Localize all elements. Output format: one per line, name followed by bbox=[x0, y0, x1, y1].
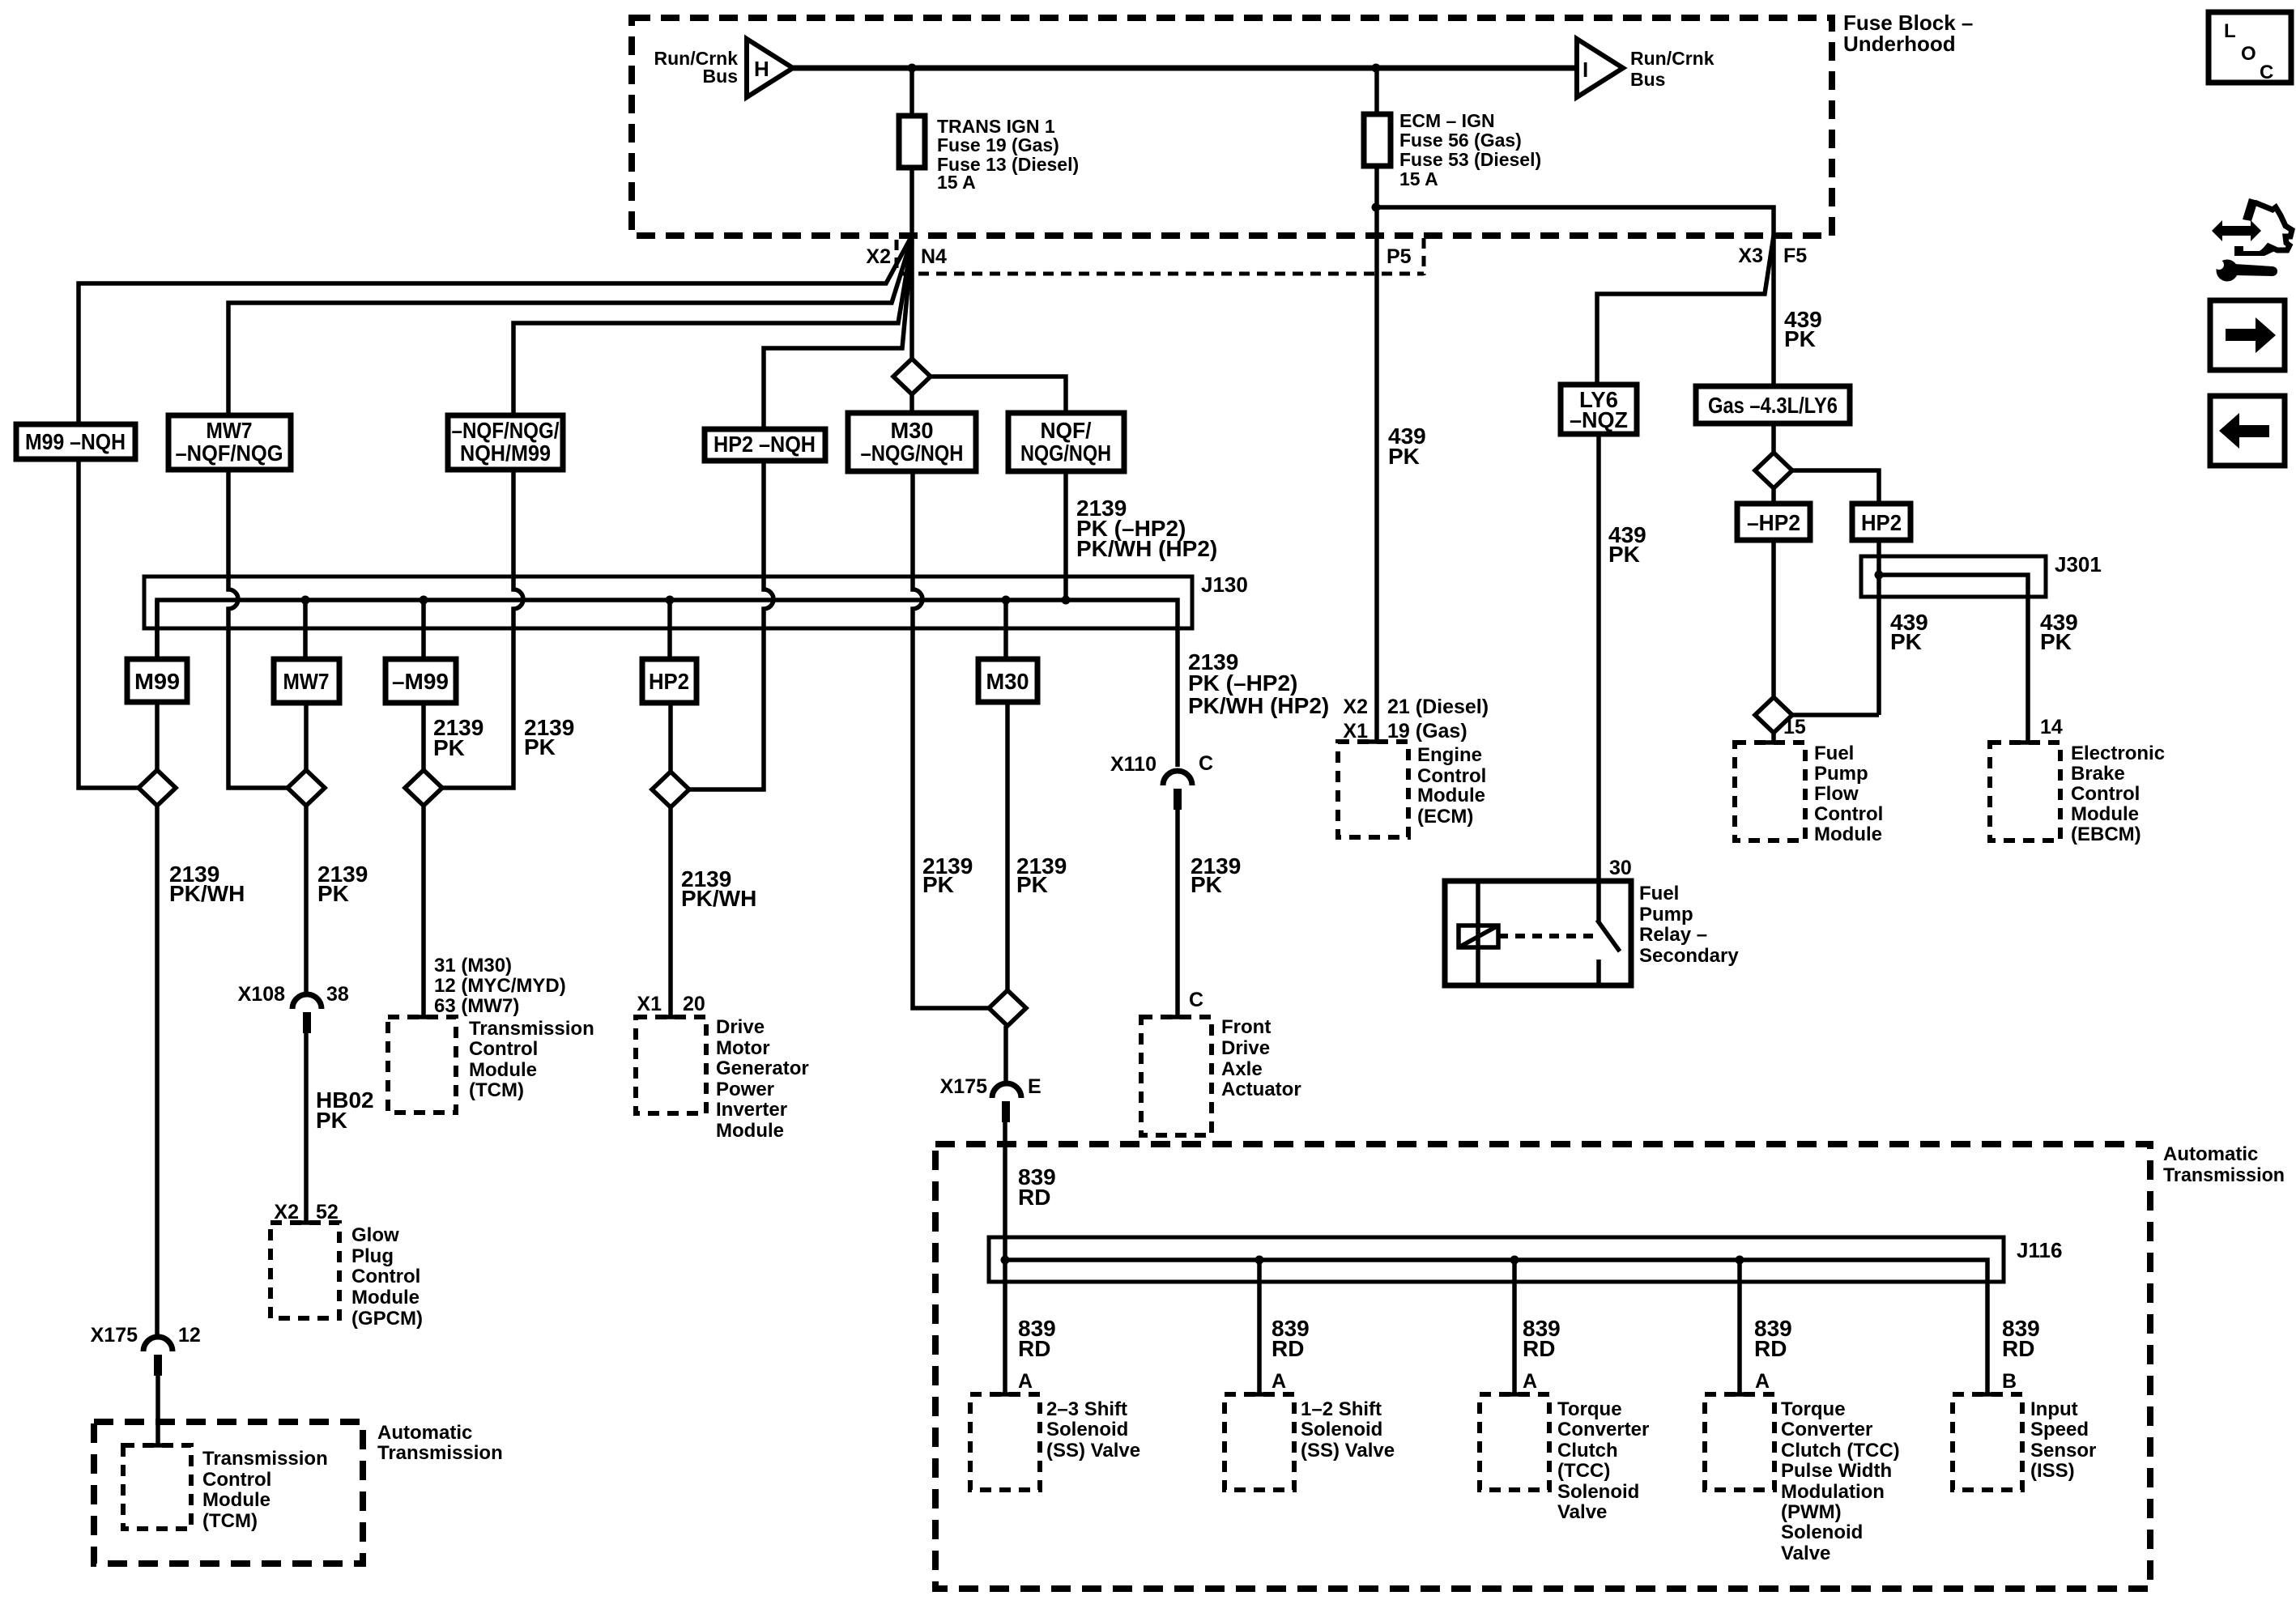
relay Fuel Pump Relay - Secondary bbox=[1445, 881, 1631, 985]
svg-text:PK/WH (HP2): PK/WH (HP2) bbox=[1188, 693, 1329, 718]
wire J130 tap to -M99 box bbox=[421, 600, 426, 659]
wire diamond to HP2 box bbox=[1792, 470, 1879, 504]
module ECM dashed box bbox=[1338, 742, 1408, 837]
svg-text:MW7: MW7 bbox=[207, 418, 253, 443]
svg-text:N4: N4 bbox=[921, 245, 947, 268]
wire fan to M99-NQH bbox=[79, 236, 912, 424]
svg-text:PK: PK bbox=[1784, 326, 1816, 351]
svg-text:–HP2: –HP2 bbox=[1747, 510, 1800, 535]
svg-text:Glow: Glow bbox=[351, 1224, 399, 1246]
svg-text:(EBCM): (EBCM) bbox=[2071, 823, 2141, 845]
box HP2 -NQH bbox=[705, 429, 825, 461]
svg-text:Actuator: Actuator bbox=[1221, 1079, 1301, 1100]
svg-text:12 (MYC/MYD): 12 (MYC/MYD) bbox=[434, 975, 566, 997]
svg-text:L: L bbox=[2224, 20, 2236, 42]
svg-text:Input: Input bbox=[2030, 1398, 2078, 1420]
svg-text:Module: Module bbox=[1814, 823, 1882, 845]
svg-text:RD: RD bbox=[1018, 1185, 1050, 1210]
svg-text:Converter: Converter bbox=[1557, 1419, 1649, 1440]
wire HB02 to GPCM bbox=[304, 1033, 309, 1223]
relay coil bbox=[1459, 926, 1498, 947]
automatic transmission dashed box lower-left bbox=[94, 1422, 363, 1564]
svg-text:31 (M30): 31 (M30) bbox=[434, 955, 512, 977]
wire X175 to TCM bbox=[155, 1376, 160, 1445]
svg-text:Gas –4.3L/LY6: Gas –4.3L/LY6 bbox=[1708, 393, 1838, 418]
svg-text:Electronic: Electronic bbox=[2071, 743, 2165, 764]
svg-text:E: E bbox=[1028, 1075, 1042, 1098]
box HP2 right bbox=[1852, 504, 1910, 540]
svg-text:PK (–HP2): PK (–HP2) bbox=[1188, 670, 1297, 696]
wire X3 branch to LY6-NQZ bbox=[1597, 236, 1774, 385]
wire J116 inner bus bbox=[1005, 1260, 1987, 1394]
node I off-page triangle bbox=[1577, 39, 1623, 97]
wire fan to -NQF/NQG/NQH/M99 bbox=[513, 240, 912, 415]
wire fan to MW7-NQF/NQG bbox=[228, 238, 912, 415]
svg-text:Transmission: Transmission bbox=[377, 1442, 503, 1464]
junction dot bus at TRANS IGN fuse bbox=[908, 64, 917, 73]
svg-text:Front: Front bbox=[1221, 1016, 1271, 1038]
icon arrow left box bbox=[2210, 396, 2285, 466]
wire X175/E to J116 bbox=[1003, 1122, 1007, 1260]
wire Gas box to diamond bbox=[1771, 423, 1776, 453]
svg-text:Fuse 56 (Gas): Fuse 56 (Gas) bbox=[1399, 130, 1522, 151]
wire bus to TRANS IGN 1 fuse bbox=[909, 68, 914, 116]
module Front Drive Axle Actuator dashed box bbox=[1141, 1017, 1212, 1135]
svg-text:I: I bbox=[1582, 57, 1588, 82]
svg-text:M30: M30 bbox=[891, 418, 934, 443]
svg-text:63 (MW7): 63 (MW7) bbox=[434, 995, 519, 1017]
node H off-page triangle bbox=[747, 39, 793, 97]
svg-text:J301: J301 bbox=[2055, 552, 2102, 577]
svg-text:Power: Power bbox=[716, 1079, 774, 1100]
svg-text:X108: X108 bbox=[238, 983, 285, 1006]
box MW7 -NQF/NQG bbox=[168, 415, 291, 470]
box M99 bbox=[127, 659, 187, 702]
wire Run/Crnk bus bbox=[793, 66, 1576, 71]
svg-text:Solenoid: Solenoid bbox=[1301, 1419, 1382, 1440]
wire HP2 diamond to X1/20 bbox=[668, 807, 673, 1017]
wire LY6-NQZ to relay pin 30 bbox=[1596, 434, 1601, 883]
svg-text:Clutch: Clutch bbox=[1557, 1440, 1618, 1462]
svg-text:14: 14 bbox=[2040, 716, 2063, 738]
svg-text:(PWM): (PWM) bbox=[1781, 1501, 1842, 1523]
wire bus to ECM-IGN fuse bbox=[1374, 68, 1379, 114]
svg-text:PK: PK bbox=[316, 1108, 347, 1133]
connector X175 pin 12 bbox=[143, 1337, 173, 1351]
svg-text:Motor: Motor bbox=[716, 1037, 770, 1059]
svg-text:PK: PK bbox=[1608, 542, 1640, 567]
box -NQF/NQG/NQH/M99 bbox=[448, 415, 563, 470]
svg-text:X3: X3 bbox=[1738, 245, 1763, 267]
svg-text:Control: Control bbox=[469, 1038, 538, 1060]
svg-text:O: O bbox=[2241, 43, 2256, 65]
wire MW7 box to diamond bbox=[304, 703, 309, 770]
svg-text:15 A: 15 A bbox=[937, 172, 976, 193]
svg-text:RD: RD bbox=[1272, 1336, 1304, 1361]
svg-text:(TCM): (TCM) bbox=[202, 1510, 258, 1532]
svg-text:Control: Control bbox=[1814, 803, 1883, 825]
svg-text:Fuel: Fuel bbox=[1639, 883, 1679, 904]
svg-text:–NQF/NQG: –NQF/NQG bbox=[176, 440, 283, 466]
svg-text:(ISS): (ISS) bbox=[2030, 1460, 2075, 1482]
wire J130 inner bus bbox=[157, 600, 1178, 767]
svg-text:15 A: 15 A bbox=[1399, 168, 1438, 189]
svg-text:19 (Gas): 19 (Gas) bbox=[1387, 720, 1467, 743]
diamond splice HP2 bbox=[652, 772, 689, 807]
svg-text:Automatic: Automatic bbox=[2163, 1143, 2258, 1165]
wire TRANS IGN 1 fuse down to X2/N4 bbox=[909, 168, 914, 359]
svg-text:RD: RD bbox=[2002, 1336, 2034, 1361]
icon arrow right box bbox=[2210, 300, 2285, 370]
box M30 -NQG/NQH bbox=[848, 413, 976, 471]
junction dot J116 1-2 shift tap bbox=[1255, 1256, 1264, 1265]
svg-text:PK/WH (HP2): PK/WH (HP2) bbox=[1076, 536, 1217, 561]
svg-text:Flow: Flow bbox=[1814, 783, 1859, 805]
module GPCM dashed box bbox=[270, 1223, 339, 1318]
junction dot J116 TCC tap bbox=[1510, 1256, 1519, 1265]
connector mark X2/N4 bbox=[895, 240, 899, 269]
wire J130 tap to HP2 box bbox=[667, 600, 672, 659]
connector row fine dashed line below fuse block bbox=[901, 272, 1424, 276]
svg-text:Fuse 19 (Gas): Fuse 19 (Gas) bbox=[937, 134, 1059, 155]
box -M99 bbox=[386, 659, 456, 703]
wire -M99 box to diamond bbox=[421, 703, 426, 770]
svg-text:Underhood: Underhood bbox=[1843, 32, 1956, 56]
svg-text:(SS) Valve: (SS) Valve bbox=[1046, 1440, 1140, 1462]
svg-text:C: C bbox=[2260, 62, 2273, 83]
svg-text:Sensor: Sensor bbox=[2030, 1440, 2096, 1462]
svg-text:PK: PK bbox=[524, 734, 556, 760]
svg-text:RD: RD bbox=[1523, 1336, 1555, 1361]
svg-text:MW7: MW7 bbox=[283, 669, 330, 694]
junction dot J130 MW7 tap bbox=[301, 596, 310, 605]
wire J130 tap to MW7 box bbox=[303, 600, 308, 659]
splice pack J301 outer bbox=[1861, 556, 2046, 597]
svg-text:X1: X1 bbox=[1343, 720, 1368, 743]
svg-text:PK: PK bbox=[1016, 872, 1048, 897]
wire -HP2 box to diamond bbox=[1771, 540, 1776, 697]
relay dashed actuation line bbox=[1498, 934, 1593, 938]
svg-text:(TCC): (TCC) bbox=[1557, 1460, 1610, 1482]
wire fan to HP2-NQH bbox=[764, 243, 912, 429]
wire branch to X3/F5 bbox=[1376, 207, 1774, 386]
svg-text:X1: X1 bbox=[637, 993, 662, 1015]
svg-text:Control: Control bbox=[1417, 765, 1486, 787]
svg-text:(ECM): (ECM) bbox=[1417, 806, 1473, 828]
junction dot J116 TCC PWM tap bbox=[1736, 1256, 1744, 1265]
svg-text:Bus: Bus bbox=[1630, 69, 1665, 90]
svg-text:HP2: HP2 bbox=[1861, 510, 1902, 535]
svg-text:PK: PK bbox=[922, 872, 954, 897]
svg-text:Valve: Valve bbox=[1781, 1543, 1830, 1564]
box -HP2 bbox=[1737, 504, 1810, 540]
wire -M99 diamond to TCM bbox=[421, 806, 426, 1017]
svg-text:20: 20 bbox=[683, 993, 705, 1015]
svg-text:PK: PK bbox=[1191, 872, 1222, 897]
junction dot J130 feed tap bbox=[1062, 596, 1071, 605]
wire J116 to TCC PWM solenoid bbox=[1737, 1260, 1742, 1394]
relay switch bbox=[1596, 881, 1601, 921]
fuse block underhood dashed box bbox=[632, 18, 1832, 236]
svg-text:PK: PK bbox=[1890, 629, 1922, 654]
svg-text:Module: Module bbox=[1417, 785, 1485, 806]
wire HP2 box into J301 bbox=[1876, 540, 1881, 715]
svg-text:X2: X2 bbox=[1343, 696, 1368, 718]
svg-text:NQF/: NQF/ bbox=[1041, 418, 1092, 443]
svg-text:Pulse Width: Pulse Width bbox=[1781, 1460, 1892, 1482]
svg-text:Automatic: Automatic bbox=[377, 1422, 472, 1444]
svg-text:C: C bbox=[1189, 989, 1203, 1011]
wire diamond to -HP2 box bbox=[1771, 488, 1776, 504]
svg-text:52: 52 bbox=[316, 1201, 339, 1223]
box Gas -4.3L/LY6 bbox=[1696, 386, 1850, 423]
wire X110 to Front Drive Axle Actuator bbox=[1175, 810, 1180, 1017]
sensor ISS dashed box bbox=[1953, 1394, 2022, 1490]
svg-text:X110: X110 bbox=[1110, 753, 1157, 776]
svg-text:–M99: –M99 bbox=[392, 669, 449, 694]
wire M30-NQG/NQH column through J130 to diamond bbox=[913, 471, 989, 1008]
svg-text:M30: M30 bbox=[986, 669, 1029, 694]
icon service wrench with double arrow bbox=[2212, 198, 2292, 282]
connector X108 pin 38 bbox=[292, 994, 322, 1009]
svg-text:HP2: HP2 bbox=[649, 669, 689, 694]
svg-text:Control: Control bbox=[2071, 783, 2140, 805]
svg-text:38: 38 bbox=[326, 983, 349, 1006]
wire diamond to NQF/NQG/NQH box bbox=[931, 377, 1066, 413]
wire MW7 diamond to X108 bbox=[304, 806, 309, 994]
diamond splice -M99 bbox=[405, 770, 442, 806]
svg-text:Fuel: Fuel bbox=[1814, 743, 1854, 764]
svg-text:PK/WH: PK/WH bbox=[681, 886, 756, 911]
box NQF/NQG/NQH bbox=[1008, 413, 1124, 471]
svg-text:–NQG/NQH: –NQG/NQH bbox=[861, 440, 964, 466]
svg-text:Inverter: Inverter bbox=[716, 1099, 787, 1121]
svg-text:Speed: Speed bbox=[2030, 1419, 2089, 1440]
svg-text:Relay –: Relay – bbox=[1639, 924, 1707, 946]
svg-text:F5: F5 bbox=[1783, 245, 1807, 267]
wire J130 tap to M30 box bbox=[1003, 600, 1008, 659]
svg-text:Bus: Bus bbox=[703, 66, 738, 87]
svg-text:Axle: Axle bbox=[1221, 1058, 1263, 1080]
svg-text:J116: J116 bbox=[2017, 1238, 2062, 1262]
svg-text:A: A bbox=[1523, 1370, 1537, 1393]
wire M99 diamond to X175 bbox=[155, 806, 160, 1337]
module TCM dashed box upper bbox=[388, 1017, 456, 1113]
svg-text:Engine: Engine bbox=[1417, 744, 1482, 766]
module Fuel Pump Flow Control dashed box bbox=[1735, 743, 1805, 840]
connector X175 pin E bbox=[992, 1083, 1021, 1098]
junction dot bus at ECM fuse bbox=[1372, 64, 1381, 73]
splice pack J130 outer bbox=[144, 577, 1192, 628]
valve TCC PWM solenoid dashed box bbox=[1705, 1394, 1774, 1490]
module EBCM dashed box bbox=[1990, 743, 2060, 840]
svg-text:P5: P5 bbox=[1387, 245, 1412, 268]
svg-text:A: A bbox=[1755, 1370, 1770, 1393]
junction dot P5 branch bbox=[1372, 203, 1381, 212]
svg-text:PK: PK bbox=[433, 735, 465, 760]
fuse TRANS IGN 1 bbox=[899, 116, 925, 168]
svg-text:PK: PK bbox=[317, 881, 349, 906]
svg-text:H: H bbox=[754, 57, 769, 81]
svg-text:HP2 –NQH: HP2 –NQH bbox=[714, 432, 816, 457]
icon LOC box bbox=[2209, 12, 2291, 83]
svg-text:Converter: Converter bbox=[1781, 1419, 1872, 1440]
svg-text:Solenoid: Solenoid bbox=[1046, 1419, 1128, 1440]
svg-text:NQG/NQH: NQG/NQH bbox=[1020, 440, 1111, 466]
svg-text:Transmission: Transmission bbox=[469, 1018, 594, 1040]
svg-text:PK: PK bbox=[1388, 444, 1420, 469]
svg-text:Plug: Plug bbox=[351, 1245, 394, 1267]
svg-text:15: 15 bbox=[1783, 716, 1806, 738]
svg-text:Valve: Valve bbox=[1557, 1501, 1607, 1523]
svg-text:Module: Module bbox=[469, 1059, 537, 1081]
valve 2-3 shift solenoid dashed box bbox=[970, 1394, 1040, 1490]
wire HP2-NQH column through J130 to diamond bbox=[689, 461, 773, 789]
wire HP2 box to diamond bbox=[668, 703, 673, 772]
svg-text:RD: RD bbox=[1754, 1336, 1787, 1361]
connector X110 pin C bbox=[1163, 771, 1192, 785]
connector mark P5 bbox=[1422, 238, 1426, 275]
wire merge diamond right to J301 drop bbox=[1792, 713, 1879, 717]
svg-text:NQH/M99: NQH/M99 bbox=[460, 440, 551, 466]
diamond splice M30 column bbox=[893, 359, 931, 394]
wire J130 tap to M99 box bbox=[155, 600, 160, 659]
box HP2 bbox=[642, 659, 696, 703]
svg-text:30: 30 bbox=[1609, 857, 1632, 879]
svg-text:Secondary: Secondary bbox=[1639, 945, 1739, 967]
svg-text:Module: Module bbox=[202, 1489, 270, 1511]
splice pack J116 outer bbox=[989, 1237, 2004, 1282]
svg-text:A: A bbox=[1018, 1370, 1033, 1393]
svg-text:–NQZ: –NQZ bbox=[1570, 407, 1628, 432]
junction dot J130 M30 tap bbox=[1002, 596, 1011, 605]
svg-text:Run/Crnk: Run/Crnk bbox=[1630, 48, 1715, 69]
svg-text:M99 –NQH: M99 –NQH bbox=[25, 429, 126, 454]
svg-text:B: B bbox=[2002, 1370, 2017, 1393]
box LY6 -NQZ bbox=[1561, 385, 1637, 434]
module Drive Motor Generator Power Inverter dashed box bbox=[636, 1017, 706, 1113]
diamond splice M99 bbox=[138, 770, 176, 806]
automatic transmission dashed box bottom bbox=[935, 1144, 2150, 1589]
svg-text:Control: Control bbox=[202, 1469, 271, 1491]
diamond splice Gas bbox=[1755, 453, 1792, 488]
svg-text:Control: Control bbox=[351, 1266, 420, 1287]
wire M99-NQH column to diamond bbox=[79, 459, 138, 788]
svg-text:2–3 Shift: 2–3 Shift bbox=[1046, 1398, 1127, 1420]
wire J116 to 2-3 shift solenoid bbox=[1003, 1260, 1007, 1394]
svg-text:RD: RD bbox=[1018, 1336, 1050, 1361]
valve 1-2 shift solenoid dashed box bbox=[1225, 1394, 1294, 1490]
svg-text:Generator: Generator bbox=[716, 1057, 809, 1079]
svg-text:X2: X2 bbox=[866, 245, 891, 268]
svg-text:J130: J130 bbox=[1201, 572, 1248, 597]
box M99 -NQH bbox=[16, 424, 135, 459]
diamond splice M30 bbox=[989, 990, 1026, 1026]
fuse ECM - IGN bbox=[1364, 114, 1391, 166]
svg-text:–NQF/NQG/: –NQF/NQG/ bbox=[452, 418, 560, 443]
svg-text:Drive: Drive bbox=[716, 1016, 765, 1038]
svg-text:Clutch (TCC): Clutch (TCC) bbox=[1781, 1440, 1900, 1462]
box M30 bbox=[978, 659, 1037, 702]
svg-text:A: A bbox=[1272, 1370, 1286, 1393]
svg-text:Brake: Brake bbox=[2071, 763, 2125, 785]
wire M99 box to diamond bbox=[155, 702, 160, 770]
svg-text:Torque: Torque bbox=[1781, 1398, 1846, 1420]
wire diamond to Fuel Pump Flow Control Module bbox=[1771, 733, 1776, 743]
svg-text:Module: Module bbox=[716, 1120, 784, 1142]
wire M30 diamond to X175/E bbox=[1003, 1026, 1008, 1083]
svg-text:Modulation: Modulation bbox=[1781, 1481, 1885, 1503]
svg-text:X2: X2 bbox=[274, 1201, 299, 1223]
svg-text:1–2 Shift: 1–2 Shift bbox=[1301, 1398, 1382, 1420]
wire J116 to TCC solenoid bbox=[1512, 1260, 1517, 1394]
svg-text:12: 12 bbox=[178, 1324, 201, 1347]
svg-text:Solenoid: Solenoid bbox=[1781, 1521, 1863, 1543]
svg-text:21 (Diesel): 21 (Diesel) bbox=[1387, 696, 1489, 718]
svg-text:Drive: Drive bbox=[1221, 1037, 1270, 1059]
module TCM dashed box lower bbox=[123, 1445, 191, 1529]
svg-text:Pump: Pump bbox=[1814, 763, 1868, 785]
svg-text:(SS) Valve: (SS) Valve bbox=[1301, 1440, 1395, 1462]
wire NQF/NQG/NQH box to J130 bbox=[1063, 471, 1068, 600]
svg-text:PK/WH: PK/WH bbox=[169, 881, 245, 906]
junction dot J130 -M99 tap bbox=[420, 596, 428, 605]
svg-text:Transmission: Transmission bbox=[202, 1448, 328, 1470]
svg-text:M99: M99 bbox=[134, 669, 180, 694]
junction dot J301 bbox=[1875, 571, 1884, 580]
svg-text:PK: PK bbox=[2040, 629, 2072, 654]
svg-text:Fuse 53 (Diesel): Fuse 53 (Diesel) bbox=[1399, 149, 1541, 170]
wire MW7-NQF/NQG column through J130 to diamond bbox=[228, 470, 287, 788]
svg-text:Pump: Pump bbox=[1639, 904, 1693, 926]
wire diamond to M30-NQG/NQH box bbox=[909, 394, 914, 413]
svg-text:(GPCM): (GPCM) bbox=[351, 1308, 423, 1330]
svg-text:Torque: Torque bbox=[1557, 1398, 1622, 1420]
diamond splice -HP2/HP2 merge bbox=[1755, 697, 1792, 733]
wire J301 inner to EBCM bbox=[1879, 575, 2028, 743]
diamond splice MW7 bbox=[288, 770, 325, 806]
wire ECM fuse down through P5 to ECM bbox=[1374, 166, 1379, 742]
box MW7 bbox=[274, 659, 339, 703]
svg-text:Module: Module bbox=[2071, 803, 2139, 825]
svg-text:X175: X175 bbox=[940, 1075, 987, 1098]
svg-text:ECM – IGN: ECM – IGN bbox=[1399, 110, 1495, 131]
svg-text:Solenoid: Solenoid bbox=[1557, 1481, 1639, 1503]
svg-text:(TCM): (TCM) bbox=[469, 1079, 524, 1101]
valve TCC solenoid dashed box bbox=[1480, 1394, 1549, 1490]
wire -NQF column through J130 to diamond bbox=[442, 470, 523, 788]
svg-text:Transmission: Transmission bbox=[2163, 1164, 2285, 1186]
svg-text:X175: X175 bbox=[91, 1324, 138, 1347]
wire M30 box to diamond bbox=[1005, 702, 1010, 990]
wire J116 to 1-2 shift solenoid bbox=[1257, 1260, 1262, 1394]
junction dot J116 at 839 feed bbox=[1001, 1256, 1010, 1265]
svg-text:Module: Module bbox=[351, 1287, 420, 1308]
junction dot J130 HP2 tap bbox=[666, 596, 675, 605]
svg-text:C: C bbox=[1199, 752, 1213, 775]
